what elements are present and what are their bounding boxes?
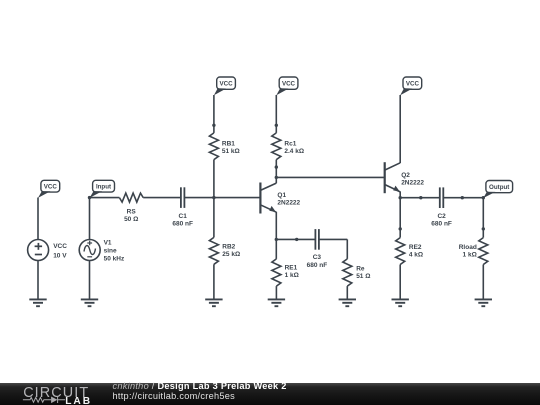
- svg-text:RB2: RB2: [222, 244, 235, 251]
- label Re 51 Ω: [356, 266, 370, 281]
- label Rc1 2.4 kΩ: [284, 140, 304, 155]
- wire Input node to RS: [90, 197, 120, 199]
- node Output junction: [482, 196, 485, 199]
- node RB1 top: [212, 124, 215, 127]
- wire C3 to Re: [319, 239, 347, 259]
- svg-text:1 kΩ: 1 kΩ: [463, 251, 477, 258]
- wire RE2 to ground: [399, 265, 401, 300]
- wire V1 to ground: [89, 261, 91, 300]
- resistor RS: [119, 193, 143, 202]
- ground (RE2): [392, 299, 409, 306]
- svg-text:Rload: Rload: [459, 244, 477, 251]
- ground (Re): [339, 299, 356, 306]
- resistor RE1: [272, 259, 281, 286]
- resistor Rload: [479, 238, 488, 265]
- wire RS to C1: [143, 197, 181, 199]
- node Q1 collector junction: [275, 176, 278, 179]
- resistor Re: [343, 259, 352, 286]
- svg-text:Re: Re: [356, 266, 365, 273]
- svg-text:10 V: 10 V: [53, 253, 67, 260]
- label Q2 2N2222: [401, 172, 424, 187]
- wire Q2 emitter to C2: [400, 197, 440, 199]
- svg-text:RB1: RB1: [222, 140, 235, 147]
- svg-text:Rc1: Rc1: [284, 140, 296, 147]
- node Q1 emitter junction: [275, 238, 278, 241]
- svg-text:51 kΩ: 51 kΩ: [222, 148, 240, 155]
- svg-text:Q2: Q2: [401, 172, 410, 179]
- node wire joint (C2 left): [419, 196, 422, 199]
- capacitor C3: [315, 229, 319, 250]
- node RB junction: [212, 196, 215, 199]
- wire Q1 emitter down: [275, 212, 277, 240]
- wire Re to ground: [346, 286, 348, 299]
- CircuitLab logo: [15, 384, 115, 405]
- svg-text:25 kΩ: 25 kΩ: [222, 251, 240, 258]
- svg-text:VCC: VCC: [220, 80, 234, 87]
- svg-text:RE2: RE2: [409, 244, 422, 251]
- wire C1 to Q1 base: [184, 197, 259, 199]
- ground (RB2): [205, 299, 222, 306]
- node Rc1 bottom: [275, 165, 278, 168]
- svg-text:sine: sine: [104, 248, 117, 255]
- svg-text:51 Ω: 51 Ω: [356, 273, 370, 280]
- wire Input node to V1: [89, 198, 91, 240]
- svg-text:VCC: VCC: [282, 80, 296, 87]
- svg-text:680 nF: 680 nF: [307, 262, 328, 269]
- voltage source VCC: [28, 240, 49, 261]
- wire RE1 top lead: [275, 239, 277, 259]
- svg-text:680 nF: 680 nF: [431, 220, 452, 227]
- capacitor C1: [181, 187, 185, 208]
- label C3 680 nF: [307, 254, 328, 269]
- flag VCC (Q2): [400, 77, 422, 95]
- wire emitter to C3: [276, 238, 315, 240]
- svg-text:RE1: RE1: [285, 265, 298, 272]
- label RE1 1 kΩ: [285, 265, 299, 280]
- svg-text:50 kHz: 50 kHz: [104, 256, 125, 263]
- label C1 680 nF: [172, 213, 193, 228]
- wire VCC flag to Q2 collector: [399, 95, 401, 163]
- transistor Q2 2N2222: [385, 162, 401, 193]
- node Q2 emitter junction: [399, 196, 402, 199]
- wire RE1 to ground: [275, 286, 277, 299]
- svg-text:Input: Input: [96, 183, 111, 190]
- flag VCC (Rc1): [276, 77, 298, 95]
- svg-text:VCC: VCC: [406, 80, 420, 87]
- resistor RB1: [209, 133, 218, 160]
- svg-text:VCC: VCC: [44, 183, 58, 190]
- svg-text:VCC: VCC: [53, 243, 67, 250]
- svg-text:1 kΩ: 1 kΩ: [285, 272, 299, 279]
- wire VCC flag to RB1: [213, 95, 215, 125]
- svg-text:Output: Output: [489, 184, 509, 191]
- ground (V1): [81, 299, 98, 306]
- wire VCC flag to VCC source: [37, 198, 39, 240]
- wire Rc1 top lead: [275, 125, 277, 133]
- transistor Q1 2N2222: [260, 183, 276, 214]
- svg-text:2N2222: 2N2222: [401, 179, 424, 186]
- wire Rload top lead: [482, 229, 484, 238]
- svg-text:C3: C3: [313, 254, 322, 261]
- flag Input: [90, 180, 115, 198]
- ground (VCC source): [29, 299, 46, 306]
- credit text: [113, 382, 287, 402]
- svg-text:50 Ω: 50 Ω: [124, 216, 138, 223]
- wire RB2 to ground: [213, 264, 215, 299]
- svg-text:2N2222: 2N2222: [277, 200, 300, 207]
- resistor RE2: [396, 238, 405, 265]
- label Rload 1 kΩ: [459, 244, 477, 258]
- voltage source V1 sine: [79, 240, 100, 261]
- node Rc1 top: [275, 124, 278, 127]
- wire C2 to Output node: [443, 197, 483, 199]
- flag Output: [483, 181, 512, 199]
- label RB2 25 kΩ: [222, 244, 240, 259]
- wire RB1 top lead: [213, 125, 215, 133]
- node Input junction: [88, 196, 91, 199]
- node Rload top pin: [482, 227, 485, 230]
- wire RB1 to main line: [213, 160, 215, 198]
- wire Rload to ground: [482, 265, 484, 300]
- wire RE2 top lead: [399, 229, 401, 238]
- label RS 50 Ω: [124, 208, 138, 223]
- wire Rc1 to collector: [275, 160, 277, 184]
- svg-text:RS: RS: [127, 208, 137, 215]
- resistor RB2: [209, 237, 218, 264]
- wire RB2 top lead: [213, 198, 215, 238]
- node wire joint (emitter line): [295, 238, 298, 241]
- label RE2 4 kΩ: [409, 244, 423, 258]
- ground (Rload): [475, 299, 492, 306]
- svg-text:V1: V1: [104, 240, 112, 247]
- wire Q2 emitter down: [399, 192, 401, 229]
- svg-text:Q1: Q1: [277, 192, 286, 199]
- capacitor C2: [440, 187, 444, 208]
- label VCC 10 V: [53, 243, 67, 259]
- flag VCC (RB1): [214, 77, 236, 95]
- label RB1 51 kΩ: [222, 140, 240, 155]
- svg-text:LAB: LAB: [65, 396, 92, 405]
- svg-text:2.4 kΩ: 2.4 kΩ: [284, 148, 304, 155]
- node RE2 top pin: [399, 227, 402, 230]
- svg-text:C1: C1: [179, 213, 188, 220]
- wire Q1 collector to Q2 base: [276, 176, 384, 178]
- ground (RE1): [268, 299, 285, 306]
- wire Output node to Rload: [482, 198, 484, 229]
- svg-text:4 kΩ: 4 kΩ: [409, 251, 423, 258]
- resistor Rc1: [272, 133, 281, 160]
- node wire joint (C2 right): [461, 196, 464, 199]
- label C2 680 nF: [431, 213, 452, 228]
- label Q1 2N2222: [277, 192, 300, 207]
- svg-text:C2: C2: [437, 213, 446, 220]
- flag VCC (left rail): [38, 180, 60, 198]
- wire VCC source to ground: [37, 261, 39, 300]
- wire VCC flag to Rc1: [275, 95, 277, 125]
- svg-text:680 nF: 680 nF: [172, 220, 193, 227]
- label V1 sine 50 kHz: [104, 240, 125, 263]
